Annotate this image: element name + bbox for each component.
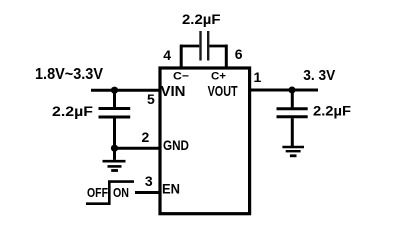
junction node input/C2 bbox=[111, 87, 118, 94]
svg-text:VIN: VIN bbox=[161, 83, 186, 100]
ground symbol (output side) bbox=[282, 147, 304, 156]
capacitor C3 plates bbox=[277, 109, 308, 117]
wire input to pin 5 (VIN) bbox=[91, 89, 160, 92]
capacitor C1 plates bbox=[201, 31, 209, 61]
svg-text:2.2µF: 2.2µF bbox=[182, 11, 221, 27]
ground symbol (input side) bbox=[103, 161, 126, 170]
IC U1 body bbox=[160, 68, 250, 214]
wire C2 top lead bbox=[113, 90, 116, 107]
svg-text:VOUT: VOUT bbox=[208, 83, 238, 100]
capacitor C2 plates bbox=[99, 109, 131, 118]
junction node output/C3 bbox=[289, 87, 296, 94]
wire GND node to pin 2 bbox=[115, 147, 161, 150]
svg-text:EN: EN bbox=[162, 181, 180, 197]
wire C1 left lead to pin 4 bbox=[180, 45, 199, 48]
svg-text:C+: C+ bbox=[211, 71, 226, 83]
svg-text:5: 5 bbox=[147, 91, 155, 107]
switch SW1 OFF/ON symbol bbox=[86, 182, 134, 205]
wire C1 right lead to pin 6 bbox=[209, 45, 227, 48]
svg-text:2.2µF: 2.2µF bbox=[313, 103, 351, 119]
svg-text:3. 3V: 3. 3V bbox=[303, 67, 335, 84]
svg-text:1.8V~3.3V: 1.8V~3.3V bbox=[35, 66, 103, 83]
svg-text:2.2µF: 2.2µF bbox=[52, 103, 93, 119]
wire pin 6 stub bbox=[225, 45, 228, 68]
svg-text:ON: ON bbox=[113, 185, 129, 200]
svg-text:OFF: OFF bbox=[87, 185, 108, 200]
wire pin 4 stub bbox=[180, 45, 183, 68]
svg-text:1: 1 bbox=[254, 69, 262, 85]
wire C3 bottom lead to ground bbox=[291, 118, 294, 146]
svg-text:6: 6 bbox=[235, 46, 243, 62]
wire switch to pin 3 (EN) bbox=[135, 191, 160, 194]
svg-text:C−: C− bbox=[173, 71, 189, 83]
svg-text:GND: GND bbox=[163, 137, 189, 153]
wire C3 top lead bbox=[291, 90, 294, 107]
wire pin 1 (VOUT) to output bbox=[250, 89, 318, 92]
svg-text:4: 4 bbox=[163, 47, 171, 63]
junction node GND/C2 bbox=[111, 145, 118, 152]
svg-text:2: 2 bbox=[142, 129, 150, 145]
svg-text:3: 3 bbox=[145, 173, 153, 189]
wire GND node down to ground bbox=[113, 148, 116, 160]
wire C2 bottom lead to GND node bbox=[113, 118, 116, 148]
